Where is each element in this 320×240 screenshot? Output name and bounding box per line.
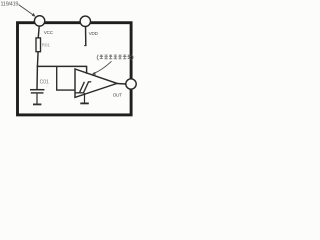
wire node to capacitor bbox=[36, 66, 38, 89]
page background bbox=[0, 0, 138, 120]
ground under capacitor bbox=[33, 103, 41, 105]
svg-text:OUT: OUT bbox=[113, 92, 122, 97]
annotation (hysteresis) text blobs bbox=[97, 55, 133, 61]
pin OUT bbox=[126, 79, 136, 89]
svg-text:R01: R01 bbox=[42, 43, 51, 48]
hysteresis symbol bbox=[76, 82, 92, 93]
curved leader arrow to comparator bbox=[91, 61, 111, 74]
op-amp comparator U1 bbox=[75, 69, 117, 97]
wire drop into comparator top bbox=[86, 66, 88, 74]
wire comparator output to OUT pin bbox=[117, 83, 127, 86]
wire resistor to divider node bbox=[36, 52, 39, 67]
pin VDD bbox=[80, 16, 90, 46]
leader arrow from page text to VCC pin bbox=[19, 5, 36, 17]
svg-text:119/419: 119/419 bbox=[1, 2, 19, 8]
pin VCC bbox=[34, 16, 44, 26]
IC outline box bbox=[18, 23, 132, 115]
svg-text:VDD: VDD bbox=[89, 31, 99, 36]
wire VCC pin to resistor bbox=[38, 24, 39, 38]
svg-text:VCC: VCC bbox=[44, 30, 54, 35]
ground under comparator bbox=[80, 93, 89, 103]
resistor R01 bbox=[36, 38, 41, 52]
capacitor C01 bbox=[30, 90, 44, 104]
svg-text:C01: C01 bbox=[40, 79, 50, 85]
wire lower input branch bbox=[57, 67, 76, 91]
wire divider node to comparator input bbox=[37, 65, 87, 67]
